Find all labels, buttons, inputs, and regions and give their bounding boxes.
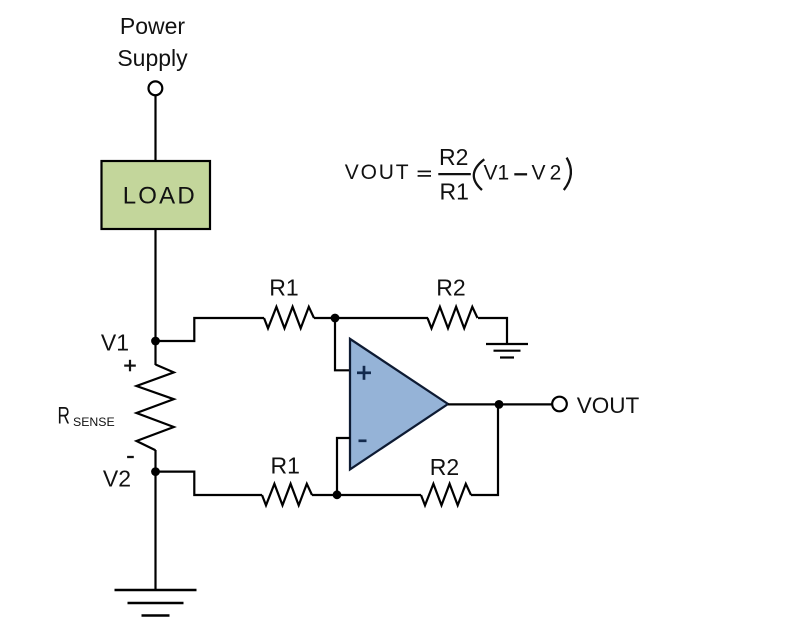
svg-text:VOUT: VOUT (577, 393, 640, 418)
svg-text:2: 2 (550, 162, 562, 185)
svg-text:R: R (58, 403, 70, 430)
svg-text:R1: R1 (269, 275, 298, 301)
svg-text:R1: R1 (270, 453, 299, 479)
svg-text:R2: R2 (436, 275, 465, 301)
svg-text:R2: R2 (430, 454, 459, 480)
svg-text:V1: V1 (484, 162, 510, 185)
svg-text:LOAD: LOAD (123, 183, 197, 210)
svg-text:R2: R2 (439, 144, 468, 170)
svg-text:V: V (532, 162, 546, 185)
svg-text:V2: V2 (103, 465, 131, 491)
svg-text:VOUT: VOUT (345, 161, 411, 184)
svg-text:Supply: Supply (117, 45, 188, 71)
svg-text:SENSE: SENSE (73, 415, 115, 429)
svg-text:Power: Power (120, 13, 186, 39)
svg-text:V1: V1 (101, 330, 129, 356)
svg-text:R1: R1 (440, 178, 469, 204)
